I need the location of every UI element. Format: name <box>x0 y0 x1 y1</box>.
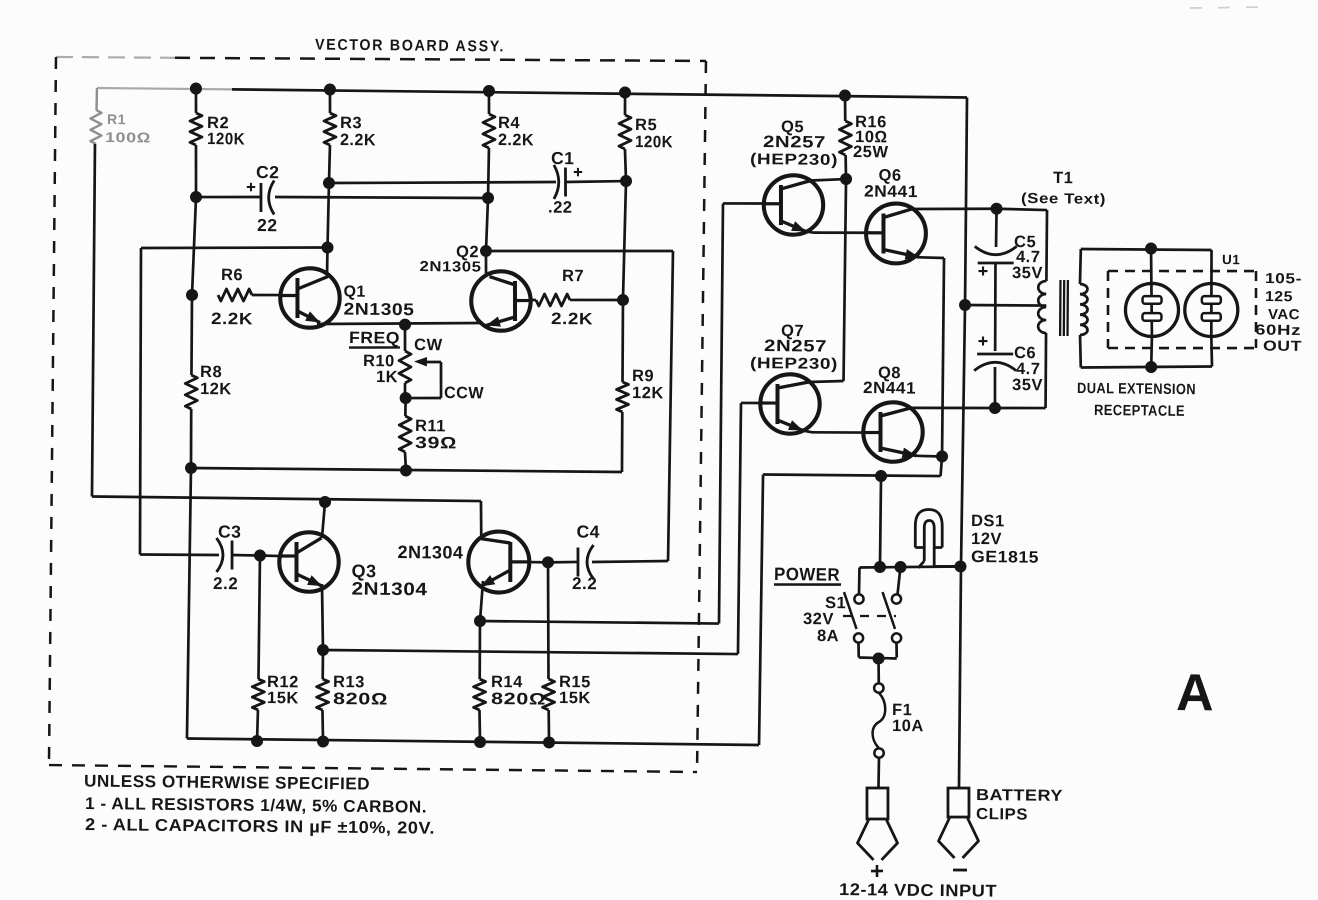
svg-text:12V: 12V <box>971 530 1002 548</box>
label C5 polarity <box>978 270 987 272</box>
svg-text:POWER: POWER <box>774 564 840 585</box>
junction bus R2 <box>190 82 202 94</box>
label negative terminal <box>953 869 967 872</box>
potentiometer R10 <box>403 325 406 351</box>
battery clip negative <box>948 788 969 817</box>
svg-text:15K: 15K <box>267 689 299 707</box>
wire return riser to bottom rail <box>759 474 763 744</box>
svg-text:8A: 8A <box>817 627 839 645</box>
junction Q2 collector node <box>480 245 492 257</box>
wire Q1 collector stub <box>326 248 329 277</box>
transistor Q2 <box>471 271 531 331</box>
junction R12 bottom <box>251 735 263 747</box>
wire Q1 collector to C3 (upper) <box>141 246 328 250</box>
svg-text:GE1815: GE1815 <box>971 548 1039 567</box>
svg-text:CLIPS: CLIPS <box>976 806 1028 824</box>
junction bus R4 <box>483 85 495 97</box>
wire top supply bus <box>232 89 967 97</box>
junction R2 C2 <box>190 191 202 203</box>
junction rail switch feed <box>874 561 886 573</box>
junction bus R5 <box>619 86 631 98</box>
resistor R8 <box>191 295 192 375</box>
svg-text:10A: 10A <box>892 717 924 735</box>
svg-text:CW: CW <box>414 336 443 354</box>
wire emitter return corner <box>941 456 943 476</box>
svg-text:2N257: 2N257 <box>764 337 827 356</box>
svg-text:60Hz: 60Hz <box>1255 323 1301 339</box>
junction R15 bottom <box>543 736 555 748</box>
resistor R12 <box>258 556 259 679</box>
svg-text:1 - ALL RESISTORS 1/4W, 5% CAR: 1 - ALL RESISTORS 1/4W, 5% CARBON. <box>85 794 427 817</box>
transistor Q4 <box>468 531 530 593</box>
svg-text:105-: 105- <box>1265 271 1302 287</box>
wire switch feed drop <box>880 476 881 567</box>
vector board dashed border top faint <box>56 57 175 59</box>
resistor R16 <box>843 96 846 122</box>
resistor R1 <box>95 88 98 110</box>
wire Q6 emitter jog <box>920 256 945 259</box>
svg-text:R5: R5 <box>635 116 657 134</box>
switch S1 <box>858 568 861 595</box>
battery clip positive <box>867 788 888 819</box>
junction R3 C1 line <box>323 177 335 189</box>
junction rail right pole <box>894 561 906 573</box>
svg-text:R6: R6 <box>221 266 243 284</box>
junction R10 R11 <box>400 392 412 404</box>
transistor Q5 <box>763 175 823 235</box>
svg-text:2.2K: 2.2K <box>551 310 593 328</box>
svg-text:35V: 35V <box>1012 264 1043 282</box>
wire Q4 emitter drop <box>480 581 483 621</box>
wire negative line lower (to battery clip) <box>959 566 962 787</box>
transformer T1 primary winding <box>997 209 1048 210</box>
junction bus R3 <box>324 83 336 95</box>
junction Q6 collector C5 primary top <box>990 203 1002 215</box>
svg-text:2.2K: 2.2K <box>498 131 534 149</box>
svg-text:BATTERY: BATTERY <box>976 787 1063 805</box>
junction R11 return rail <box>400 464 412 476</box>
wire Q3 collector drop <box>322 502 325 538</box>
svg-text:820Ω: 820Ω <box>333 690 388 709</box>
wire C4 riser <box>668 251 673 561</box>
wire Q1 base node down <box>192 197 196 295</box>
svg-text:.22: .22 <box>548 199 573 217</box>
svg-text:2.2: 2.2 <box>213 574 238 593</box>
svg-text:120K: 120K <box>635 133 673 151</box>
svg-text:2N257: 2N257 <box>763 133 826 152</box>
wire Q6 emitter drop <box>942 258 944 456</box>
junction Q1 collector node <box>321 241 333 253</box>
wire Q1 Q2 emitters <box>317 321 480 325</box>
wire receptacle bottom rail <box>1081 365 1212 369</box>
wire Q3 emitter drop <box>321 584 323 650</box>
wire Q4 collector drop <box>481 501 482 538</box>
wire Q8 collector to transformer bottom <box>911 407 994 409</box>
svg-text:UNLESS OTHERWISE SPECIFIED: UNLESS OTHERWISE SPECIFIED <box>84 771 370 793</box>
junction Q4 emitter R14 <box>474 615 486 627</box>
svg-text:39Ω: 39Ω <box>415 434 457 452</box>
R10 wiper arm <box>419 360 441 363</box>
junction emitter wire R10 <box>399 319 411 331</box>
svg-text:(HEP230): (HEP230) <box>750 151 838 169</box>
transformer T1 core <box>1059 280 1062 336</box>
svg-text:(HEP230): (HEP230) <box>750 355 838 373</box>
svg-text:820Ω: 820Ω <box>491 690 546 709</box>
junction switch feed <box>875 470 887 482</box>
svg-text:100Ω: 100Ω <box>105 129 151 145</box>
transistor Q6 <box>866 203 926 263</box>
wire Q8 emitter stub <box>916 454 942 457</box>
resistor R11 <box>404 398 407 416</box>
junction center tap negative line <box>959 299 971 311</box>
svg-text:OUT: OUT <box>1263 339 1302 355</box>
transformer T1 secondary winding <box>1079 284 1088 335</box>
svg-text:35V: 35V <box>1012 376 1043 394</box>
svg-text:T1: T1 <box>1053 169 1073 187</box>
svg-text:CCW: CCW <box>444 384 484 402</box>
svg-text:RECEPTACLE: RECEPTACLE <box>1094 402 1185 420</box>
wire Q2 collector stub <box>484 251 487 274</box>
wire bottom positive rail <box>187 738 759 744</box>
wire C3 column <box>138 248 143 555</box>
svg-text:C4: C4 <box>576 522 600 542</box>
junction switch bottom <box>872 652 884 664</box>
fuse F1 <box>877 659 880 684</box>
svg-text:120K: 120K <box>207 130 245 148</box>
junction R8 bottom rail <box>185 462 197 474</box>
svg-text:1K: 1K <box>376 368 398 386</box>
wire Q4 emitter rail to Q5 base <box>480 621 719 624</box>
svg-text:125: 125 <box>1265 289 1293 305</box>
wire Q6 collector to transformer <box>912 208 997 210</box>
lamp DS1 <box>915 509 943 547</box>
vector board dashed border top <box>175 55 706 63</box>
wire left outlet return <box>1150 336 1153 367</box>
junction R13 bottom <box>317 735 329 747</box>
junction R7 right <box>617 294 629 306</box>
transistor Q8 <box>863 402 923 462</box>
capacitor C5 <box>995 209 998 247</box>
label C2 polarity <box>247 186 255 188</box>
capacitor C4 <box>548 562 578 563</box>
svg-text:22: 22 <box>257 215 278 235</box>
wire left outlet feed <box>1150 249 1153 337</box>
svg-text:2 - ALL CAPACITORS IN µF ±10%,: 2 - ALL CAPACITORS IN µF ±10%, 20V. <box>85 815 435 838</box>
wire negative line upper (bus corner down to center tap) <box>965 98 967 305</box>
svg-text:DS1: DS1 <box>971 512 1005 530</box>
svg-text:R3: R3 <box>340 114 362 132</box>
svg-text:2N1304: 2N1304 <box>351 578 427 599</box>
svg-text:A: A <box>1176 664 1214 722</box>
transistor Q3 <box>279 532 339 592</box>
junction bus R16 <box>839 89 851 101</box>
junction C6 primary bottom <box>989 402 1001 414</box>
junction R4 C2 line <box>482 192 494 204</box>
wire Q7 emitter to Q8 base <box>803 431 812 433</box>
svg-text:25W: 25W <box>853 143 889 161</box>
svg-text:2N441: 2N441 <box>864 183 918 202</box>
svg-text:R8: R8 <box>200 363 222 381</box>
vector board dashed border left <box>49 57 57 765</box>
vector board dashed border bottom <box>49 765 697 772</box>
svg-text:R11: R11 <box>415 417 446 435</box>
transistor Q7 <box>760 374 820 434</box>
wire positive column down <box>187 468 191 738</box>
transistor Q1 <box>280 268 340 328</box>
svg-text:R4: R4 <box>498 114 521 132</box>
svg-text:R1: R1 <box>107 111 126 127</box>
svg-text:2N1304: 2N1304 <box>397 542 463 563</box>
svg-text:R7: R7 <box>562 267 584 285</box>
resistor R13 <box>321 650 324 679</box>
junction C4 R15 Q4 base <box>542 556 554 568</box>
svg-text:2N441: 2N441 <box>863 379 916 398</box>
svg-text:C1: C1 <box>551 148 575 168</box>
svg-text:R9: R9 <box>632 367 654 385</box>
junction C1 R5 <box>620 175 632 187</box>
svg-text:12-14 VDC INPUT: 12-14 VDC INPUT <box>839 880 997 900</box>
junction C3 R12 Q3 base <box>254 549 266 561</box>
junction receptacle bottom left outlet <box>1145 361 1157 373</box>
wire C4 to Q2 collector <box>486 249 673 253</box>
junction R16 Q5 collector <box>840 173 852 185</box>
svg-text:(See Text): (See Text) <box>1021 191 1106 208</box>
wire R3 to Q1 collector <box>328 183 329 248</box>
wire emitter return rail <box>763 474 940 476</box>
wire right outlet return <box>1211 336 1212 366</box>
svg-text:C2: C2 <box>256 162 280 182</box>
capacitor C2 <box>196 196 262 197</box>
capacitor C3 <box>140 554 219 555</box>
receptacle outlets <box>1125 283 1179 337</box>
capacitor C6 <box>977 352 1013 356</box>
wire R4 to Q2 collector <box>486 198 488 251</box>
U1 dashed enclosure <box>1108 269 1256 272</box>
wire Q3 base stub <box>260 554 281 557</box>
resistor R4 <box>487 91 490 114</box>
junction R14 bottom <box>474 736 486 748</box>
svg-text:U1: U1 <box>1222 252 1240 267</box>
resistor R3 <box>328 90 331 114</box>
wire Q3 emitter rail to Q7 base <box>323 650 738 655</box>
wire R1 column down <box>91 144 95 496</box>
resistor R7 <box>529 299 536 302</box>
svg-text:Q1: Q1 <box>343 283 366 300</box>
label C1 polarity <box>574 171 582 173</box>
wire Q5 emitter to Q6 base <box>806 232 813 233</box>
svg-text:12K: 12K <box>200 380 232 398</box>
resistor R5 <box>623 93 626 116</box>
svg-text:2N1305: 2N1305 <box>419 259 481 276</box>
vector board dashed border right <box>697 61 706 772</box>
resistor R14 <box>478 621 482 679</box>
svg-text:2.2K: 2.2K <box>211 310 253 328</box>
svg-text:32V: 32V <box>803 610 834 628</box>
svg-text:2N1305: 2N1305 <box>343 299 414 319</box>
wire receptacle top rail <box>1081 249 1212 251</box>
wire R16 node down to Q7 collector <box>844 179 847 381</box>
junction Q8 emitter <box>936 450 948 462</box>
svg-text:C3: C3 <box>218 521 242 541</box>
junction Q3 emitter R13 <box>317 644 329 656</box>
label positive terminal <box>871 870 883 873</box>
wire right outlet feed down <box>1211 250 1213 337</box>
capacitor C1 <box>329 180 556 186</box>
svg-text:2.2: 2.2 <box>572 574 597 593</box>
svg-text:12K: 12K <box>632 384 664 402</box>
resistor R2 <box>194 89 197 114</box>
resistor R9 <box>622 300 623 382</box>
wire transformer center tap <box>965 305 1046 306</box>
junction rail lamp negative <box>954 560 966 572</box>
svg-text:R14: R14 <box>491 673 523 691</box>
svg-text:2.2K: 2.2K <box>340 131 376 149</box>
wire Q5 collector stub <box>811 179 846 181</box>
svg-text:VAC: VAC <box>1268 307 1300 323</box>
svg-text:DUAL EXTENSION: DUAL EXTENSION <box>1077 380 1196 398</box>
scan marks <box>1190 6 1268 9</box>
wire Q3 Q4 collector rail <box>92 496 481 501</box>
svg-text:15K: 15K <box>559 689 591 707</box>
svg-text:FREQ: FREQ <box>349 329 400 348</box>
wire top supply bus faint left <box>97 88 232 89</box>
wire Q2 base node down <box>623 181 626 300</box>
junction R6 left <box>186 289 198 301</box>
wire negative line mid (center tap to lamp rail) <box>961 305 965 566</box>
svg-text:R13: R13 <box>333 673 365 691</box>
resistor R15 <box>547 562 550 679</box>
resistor R6 <box>218 289 252 302</box>
junction receptacle top left outlet <box>1145 242 1157 254</box>
wire lamp switch rail <box>859 565 960 568</box>
label C6 polarity <box>978 340 987 342</box>
junction Q3 collector on rail <box>319 496 331 508</box>
wire Q4 base stub <box>529 561 548 564</box>
svg-text:VECTOR BOARD ASSY.: VECTOR BOARD ASSY. <box>315 36 505 55</box>
wire emitter-resistor return rail <box>191 468 622 473</box>
